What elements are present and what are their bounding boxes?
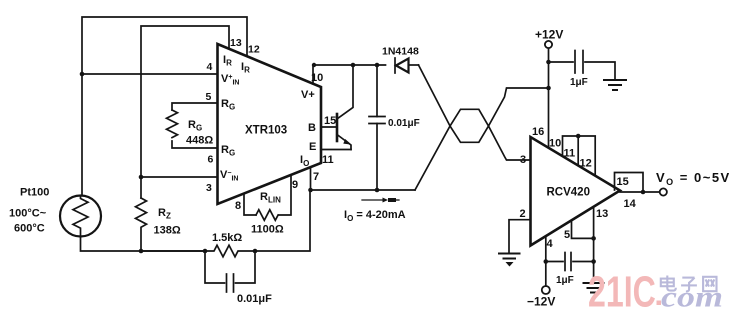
node junction dot inner rail / pin3 wire [139,175,144,180]
wire pin 5 stub [572,222,594,239]
capacitor right lead [573,261,594,263]
wire pin 2 to ground [509,220,531,253]
wire pin 13 vertical [593,207,595,282]
svg-text:15: 15 [617,176,629,188]
wire pin 11 stub [577,136,579,165]
svg-text:9: 9 [292,179,298,191]
node dot pin7 [308,188,313,193]
resistor RG 448 ohm loop (pins 5-6) [172,103,217,110]
svg-text:1μF: 1μF [556,275,574,286]
watermark dot [657,301,662,306]
wire return to pin7 riser [255,190,310,251]
twisted pair wire A (diode to pin 3) [419,65,531,160]
svg-text:1.5kΩ: 1.5kΩ [212,232,242,244]
node dot pin4 / cap [544,259,549,264]
svg-text:14: 14 [624,198,637,210]
svg-text:15: 15 [324,115,336,127]
terminal output Vo [660,188,667,195]
wire top inner loop to pin 13 [141,26,229,198]
resistor RZ 138 ohm (vertical zigzag) [136,198,147,251]
svg-text:Pt100: Pt100 [20,187,49,199]
svg-text:10: 10 [549,138,561,150]
node dot pin5/pin13 [591,236,596,241]
capacitor bottom lead [376,124,378,191]
svg-text:21IC: 21IC [588,268,656,317]
terminal +12V [545,41,552,48]
svg-text:IO = 4-20mA: IO = 4-20mA [344,209,406,223]
capacitor 0.01uF (loop supply): top lead [376,65,378,117]
node dot RZ bottom on return wire [139,249,144,254]
resistor RLIN 1100 ohm loop (pins 8-9) [244,194,256,216]
svg-text:7: 7 [313,171,319,183]
op-amp RCV420 body outline [531,137,621,246]
capacitor plates [369,116,385,118]
wire pin 7 stub [310,167,312,190]
svg-text:6: 6 [208,154,214,166]
node dot cap to IO wire [375,188,380,193]
node dot twisted wire tap [546,86,551,91]
svg-text:600°C: 600°C [14,223,45,235]
op-amp XTR103 body outline [218,44,322,204]
capacitor C 0.01uF across 1.5k: left lead [205,251,225,283]
svg-text:V+: V+ [301,89,315,101]
svg-text:12: 12 [580,158,592,170]
svg-text:1N4148: 1N4148 [382,46,419,58]
svg-text:3: 3 [520,154,526,166]
svg-text:4: 4 [547,238,554,250]
svg-text:+12V: +12V [535,28,563,42]
transistor Q1 base bar [336,114,339,141]
wire V+ top rail to diode [313,64,386,66]
wire pin 15 box [615,173,644,193]
arrow IO current direction [362,199,384,201]
node dot right of 1.5k [253,249,258,254]
svg-text:13: 13 [596,208,608,220]
ground (top right) [604,79,626,81]
svg-text:448Ω: 448Ω [186,135,213,147]
svg-text:16: 16 [532,126,544,138]
ground (pin 13) [584,282,604,284]
terminal -12V [542,286,550,294]
transistor base lead from pin B [321,126,336,128]
node dot 1uF tap [546,60,551,65]
svg-text:11: 11 [322,154,334,166]
svg-text:1100Ω: 1100Ω [251,224,284,236]
diode 1N4148 [394,58,396,73]
svg-text:5: 5 [564,229,570,241]
svg-text:E: E [309,141,316,153]
svg-text:3: 3 [206,182,212,194]
node dot pin15 to output [641,190,646,195]
capacitor right lead [236,251,256,283]
transistor emitter lead with arrow [337,135,351,150]
twisted pair wire B (IO to +12V rail) [415,88,548,190]
capacitor 0.01uF plates [226,274,228,292]
Pt100 sensor circle [60,196,101,237]
capacitor 1uF right lead [585,62,615,79]
capacitor 1uF (bottom) left lead [546,261,563,263]
svg-text:0.01μF: 0.01μF [237,293,272,305]
svg-text:XTR103: XTR103 [245,125,287,137]
wire pin 10 stub to V+ rail [312,65,314,84]
svg-text:RCV420: RCV420 [547,187,590,199]
watermark com [661,280,723,313]
watermark dianziwang glyphs [661,276,717,292]
wire Pt100 bottom to return rail [81,237,206,252]
svg-text:2: 2 [520,208,526,220]
wire pin E [321,149,351,151]
capacitor 1uF plates [564,253,566,271]
wire +12V rail [548,48,550,147]
wire return bottom (RZ to 1.5k node) [141,250,205,252]
node dot collector junction [351,63,356,68]
svg-text:1μF: 1μF [570,77,588,88]
Pt100 internal zigzag element [73,196,88,237]
wire pin 4 [82,73,217,75]
svg-text:12: 12 [248,44,260,56]
resistor 1.5k ohm (horizontal zigzag) [205,245,255,257]
ground (pin 2) [499,253,520,255]
svg-text:138Ω: 138Ω [154,225,181,237]
svg-text:8: 8 [235,200,241,212]
transistor collector lead [337,65,353,119]
svg-text:13: 13 [230,37,242,49]
node A junction dot on left rail [80,72,85,77]
node dot pin 11 top [576,134,581,139]
svg-text:B: B [308,122,316,134]
node dot cap junction [375,63,380,68]
node dot left of 1.5k [203,249,208,254]
capacitor 1uF plates [574,51,576,74]
svg-text:0.01μF: 0.01μF [388,118,420,129]
svg-text:11: 11 [564,148,576,160]
svg-text:−12V: −12V [527,295,555,309]
wire pin 4 to -12V [545,237,547,287]
svg-text:10: 10 [311,72,323,84]
wire top outer loop: left rail x=82 [82,17,247,195]
watermark 21IC [588,268,656,317]
wire output [620,191,660,193]
wire IO line [311,189,416,191]
wire feedback box pins 10-11-12 [563,136,596,175]
node dot on pin13 line [591,259,596,264]
wire pin 3 from inner rail [141,176,217,178]
node dot at pin10 top [312,63,316,67]
svg-text:100°C~: 100°C~ [9,208,47,220]
svg-text:4: 4 [207,61,213,73]
capacitor 1uF (top) lead [549,61,574,63]
svg-text:5: 5 [206,91,212,103]
